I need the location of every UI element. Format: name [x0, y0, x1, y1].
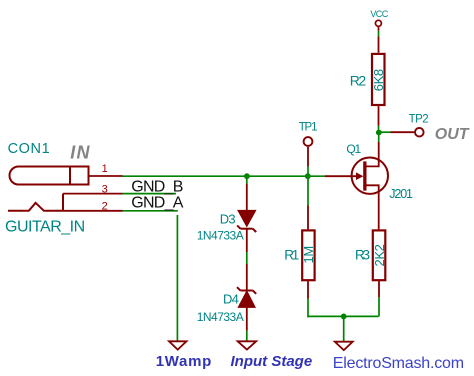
- svg-text:1N4733A: 1N4733A: [197, 229, 244, 243]
- ground (GND_A): [169, 341, 187, 349]
- TP1 pin: [307, 147, 309, 167]
- test point TP1: [304, 137, 313, 146]
- pin 1: [89, 175, 123, 177]
- diode D3: [237, 184, 256, 252]
- junction rail: [341, 314, 347, 320]
- svg-text:TP2: TP2: [409, 113, 429, 125]
- svg-text:1Wamp: 1Wamp: [156, 353, 212, 370]
- svg-text:R2: R2: [350, 73, 367, 89]
- svg-text:CON1: CON1: [8, 141, 51, 157]
- junction at D3: [244, 173, 250, 179]
- ground (rail): [335, 342, 353, 350]
- TP2 pin: [391, 131, 415, 133]
- wire D4 to ground: [246, 331, 248, 342]
- R2 bottom pin: [378, 106, 380, 126]
- connector CON1: [8, 167, 89, 211]
- resistor R2: [372, 54, 385, 105]
- gate pin Q1: [325, 175, 357, 177]
- svg-text:Q1: Q1: [346, 142, 361, 156]
- svg-text:GUITAR_IN: GUITAR_IN: [5, 219, 85, 236]
- wire source rail: [307, 315, 379, 317]
- svg-text:2: 2: [102, 200, 108, 212]
- junction at TP1: [305, 173, 311, 179]
- resistor R1: [302, 230, 314, 280]
- pin 3: [63, 193, 123, 195]
- wire net IN (pin1 to gate): [123, 175, 325, 177]
- svg-text:OUT: OUT: [435, 126, 470, 143]
- wire junction to D3: [246, 176, 248, 183]
- svg-text:1M: 1M: [301, 246, 316, 263]
- wire GND_B: [123, 193, 177, 195]
- wire VCC to R2: [378, 31, 380, 37]
- power VCC: [375, 20, 381, 31]
- svg-text:1: 1: [102, 163, 108, 175]
- test point TP2: [415, 128, 424, 137]
- wire R1 to rail: [307, 299, 309, 317]
- R2 top pin: [378, 37, 380, 53]
- svg-text:R3: R3: [355, 248, 370, 263]
- svg-text:GND_B: GND_B: [131, 179, 182, 196]
- svg-text:IN: IN: [70, 143, 90, 163]
- ground (under D4): [238, 341, 257, 349]
- svg-text:D3: D3: [220, 211, 236, 226]
- svg-text:ElectroSmash.com: ElectroSmash.com: [333, 355, 464, 372]
- wire drain to junction: [378, 133, 380, 143]
- R1 bottom pin: [307, 281, 309, 299]
- wire drain to TP2: [379, 131, 391, 133]
- transistor Q1: [352, 142, 388, 229]
- wire R3 to rail: [378, 297, 380, 316]
- wire rail to ground: [343, 316, 345, 341]
- wire GND_A: [123, 210, 178, 212]
- svg-text:Input Stage: Input Stage: [231, 353, 313, 370]
- svg-text:R1: R1: [284, 248, 299, 263]
- svg-text:1N4733A: 1N4733A: [197, 310, 244, 324]
- wire TP1 to junction: [307, 167, 309, 177]
- junction drain: [376, 130, 382, 136]
- svg-text:J201: J201: [389, 187, 413, 201]
- pin 2: [63, 210, 123, 212]
- svg-text:VCC: VCC: [370, 9, 388, 19]
- svg-text:TP1: TP1: [299, 122, 317, 134]
- resistor R3: [373, 230, 386, 280]
- svg-text:6K8: 6K8: [371, 69, 386, 91]
- R1 top pin: [307, 206, 309, 230]
- svg-text:2K2: 2K2: [372, 244, 387, 266]
- R3 bottom pin: [378, 281, 380, 297]
- svg-text:D4: D4: [223, 291, 239, 306]
- wire R2 to drain junction: [378, 126, 380, 133]
- svg-text:3: 3: [102, 184, 108, 196]
- wire GND_A down: [176, 215, 178, 341]
- wire D3-D4: [246, 252, 248, 264]
- wire junction to R1: [307, 176, 309, 205]
- svg-text:GND_A: GND_A: [131, 195, 183, 212]
- diode D4: [237, 264, 256, 331]
